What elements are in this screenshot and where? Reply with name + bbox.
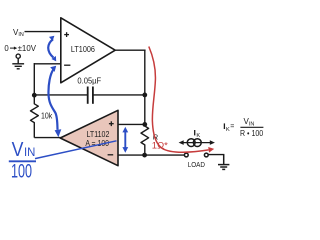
junction feedback node xyxy=(32,93,37,98)
op-amp U1 − input marker xyxy=(64,64,70,66)
svg-text:0.05µF: 0.05µF xyxy=(77,76,101,85)
svg-text:=: = xyxy=(230,124,234,131)
svg-text:IN: IN xyxy=(249,121,255,127)
svg-text:IN: IN xyxy=(18,32,23,38)
blue arrow U2 in/out balance xyxy=(124,130,126,149)
junction output/capacitor node xyxy=(142,93,147,98)
blue pointer line from VIN/100 to U2 xyxy=(35,141,117,159)
node VIN label xyxy=(13,28,24,38)
svg-text:10k: 10k xyxy=(41,111,53,121)
current direction line with arrowheads xyxy=(182,142,211,144)
wire U1 output horizontal xyxy=(115,49,145,51)
wire U1 − input xyxy=(34,63,61,65)
wire U2 + input xyxy=(118,123,145,125)
wire feedback vertical xyxy=(33,63,35,96)
wire VIN to U1 + input xyxy=(25,31,61,33)
svg-text:LT1006: LT1006 xyxy=(71,45,95,54)
red current path annotation xyxy=(149,47,209,153)
svg-text:R • 100: R • 100 xyxy=(240,129,264,138)
current source IK symbol xyxy=(187,139,201,147)
capacitor C1 plates xyxy=(88,87,93,104)
op-amp U2 − input marker xyxy=(108,154,114,156)
wire U1 output vertical xyxy=(144,50,146,125)
svg-text:K: K xyxy=(196,133,200,139)
current source label IK xyxy=(195,130,201,139)
ground (input) xyxy=(12,58,24,69)
red current path arrowhead xyxy=(208,147,214,153)
resistor 10k xyxy=(31,95,39,137)
LOAD terminal 1 xyxy=(184,153,188,157)
LOAD terminal 2 xyxy=(204,153,208,157)
resistor R (sense) xyxy=(141,124,149,155)
formula IK = VIN / (R • 100) xyxy=(224,117,263,138)
op-amp U1 + input marker xyxy=(64,32,69,37)
wire node to capacitor xyxy=(34,94,87,96)
junction R bottom node xyxy=(142,153,147,158)
wire capacitor to output node xyxy=(93,94,145,96)
svg-text:0: 0 xyxy=(4,44,9,53)
blue arrow feedback (− node to U2 output) xyxy=(48,70,57,130)
input terminal xyxy=(16,54,20,58)
blue node value label VIN/100 xyxy=(9,139,36,182)
wire U2 − input / bottom rail xyxy=(118,154,184,156)
ground (load return) xyxy=(218,155,229,170)
junction R top node xyxy=(142,122,147,127)
label input range 0→±10V xyxy=(4,44,36,53)
wire terminal 2 to ground xyxy=(208,154,224,156)
svg-text:±10V: ±10V xyxy=(18,44,37,53)
op-amp U2 LT1102 xyxy=(60,110,118,165)
svg-text:V: V xyxy=(12,139,24,161)
svg-text:IN: IN xyxy=(24,145,35,159)
svg-text:LT1102: LT1102 xyxy=(87,130,110,139)
op-amp U2 + input marker xyxy=(109,121,114,126)
blue arrow input balance (U1) xyxy=(48,39,53,57)
svg-text:LOAD: LOAD xyxy=(188,160,206,169)
svg-text:100: 100 xyxy=(11,161,32,182)
op-amp U1 LT1006 xyxy=(61,18,115,83)
wire 10k to U2 output xyxy=(34,137,60,139)
